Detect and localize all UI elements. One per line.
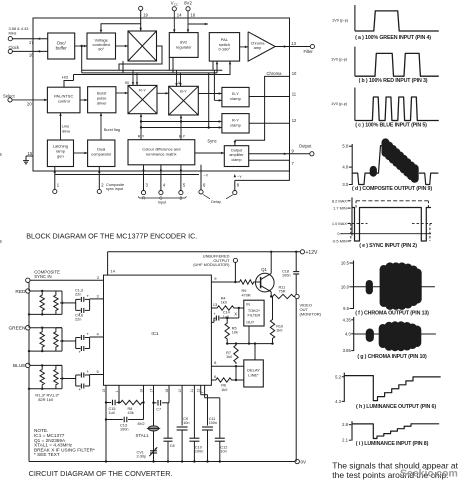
- terminal Output: [310, 152, 314, 156]
- resistor R BLUE: [41, 365, 43, 368]
- svg-text:+12V: +12V: [306, 250, 318, 256]
- svg-text:10: 10: [292, 71, 297, 76]
- terminal clock b pin 18: [8, 49, 12, 53]
- wire pin 16 stub 8V2: [143, 385, 145, 419]
- svg-text:8.2 MAX: 8.2 MAX: [332, 198, 347, 203]
- IC boundary MC1377P: [33, 18, 290, 171]
- svg-text:amplifier: amplifier: [229, 153, 244, 157]
- wire bus drops row1: [118, 64, 120, 70]
- wire clamp feed B: [141, 127, 222, 129]
- link X break point: [238, 308, 240, 318]
- wire 8V2 branch: [188, 23, 208, 25]
- terminal video out: [295, 294, 299, 298]
- capacitor C11 100n: [202, 426, 213, 428]
- resistor R6 1k0: [211, 379, 214, 381]
- svg-text:18: 18: [165, 389, 169, 393]
- svg-text:10.5: 10.5: [341, 261, 350, 266]
- wire wiper GREEN: [60, 340, 76, 342]
- terminal 0V: [295, 459, 299, 463]
- svg-text:14: 14: [111, 269, 116, 274]
- svg-text:15: 15: [102, 389, 106, 393]
- mixer M1 (subcarrier modulator): [128, 31, 157, 61]
- svg-text:MHz: MHz: [9, 30, 17, 35]
- wire Q1 collector: [270, 252, 272, 274]
- wire pin 13: [211, 307, 216, 309]
- wire BLUE rail: [28, 367, 30, 388]
- svg-text:C7: C7: [156, 407, 161, 411]
- svg-text:Burst flag: Burst flag: [104, 128, 120, 132]
- svg-text:3.65: 3.65: [343, 348, 352, 353]
- wire pin 12: [211, 321, 214, 323]
- svg-text:17: 17: [29, 40, 34, 45]
- block PAL switch 0-180deg: [209, 33, 239, 62]
- svg-text:driver: driver: [97, 100, 108, 105]
- potentiometer RV RED: [55, 291, 57, 294]
- svg-text:10: 10: [178, 389, 182, 393]
- svg-text:gen: gen: [57, 154, 64, 159]
- svg-text:43k: 43k: [128, 411, 134, 415]
- wire right rail: [295, 299, 297, 462]
- block PAL/NTSC control: [47, 87, 80, 113]
- svg-text:22n: 22n: [75, 293, 81, 297]
- wire BLUE top: [30, 364, 62, 366]
- resistor R10 1k0: [271, 296, 272, 298]
- svg-text:100n: 100n: [282, 274, 290, 278]
- svg-text:Filter: Filter: [304, 49, 314, 54]
- terminal pin 5 B input: [180, 165, 182, 191]
- wire sync to pin 2: [30, 279, 104, 281]
- wire GREEN rail: [28, 330, 30, 351]
- svg-text:( c ) 100% BLUE INPUT (PIN 5): ( c ) 100% BLUE INPUT (PIN 5): [355, 122, 427, 128]
- delay line DL1: [244, 360, 263, 387]
- svg-text:LINE*: LINE*: [248, 372, 259, 377]
- svg-text:drive: drive: [62, 129, 70, 133]
- svg-text:2-30p: 2-30p: [137, 455, 147, 459]
- wire pin 7 feedback to pin 8: [235, 160, 290, 180]
- capacitor C7: [154, 402, 157, 404]
- svg-text:75R: 75R: [279, 290, 286, 294]
- svg-text:TOKO*: TOKO*: [248, 309, 261, 313]
- capacitor C10 100n: [189, 437, 199, 439]
- wire sync to output amp: [195, 152, 225, 154]
- waveform d chroma blob: [382, 138, 390, 157]
- terminal pin 8 -Y in: [234, 180, 236, 190]
- wire GREEN top: [30, 327, 62, 329]
- svg-text:90: 90: [125, 81, 129, 85]
- svg-text:5.0: 5.0: [342, 144, 348, 149]
- svg-text:-0.5 MIN: -0.5 MIN: [332, 239, 347, 244]
- block B-Y clamp: [222, 87, 249, 106]
- svg-text:1V0 (p-p): 1V0 (p-p): [332, 18, 349, 23]
- svg-text:1k0: 1k0: [226, 355, 232, 359]
- amplifier Chroma amp: [248, 32, 275, 61]
- svg-text:luminance matrix: luminance matrix: [146, 151, 176, 156]
- wire output pin 9: [249, 153, 310, 155]
- wire PAL/NTSC to burst driver: [80, 99, 88, 101]
- wire pin 12 stub: [200, 385, 202, 394]
- svg-text:( a ) 100% GREEN INPUT (PIN 4): ( a ) 100% GREEN INPUT (PIN 4): [355, 35, 431, 41]
- wire pin 17 stub: [153, 385, 155, 461]
- svg-text:1V0 (p-p): 1V0 (p-p): [331, 57, 348, 62]
- wire R-Y mixer to B-Y mixer: [157, 92, 169, 94]
- svg-text:Output: Output: [299, 144, 312, 149]
- capacitor pair GREEN: [75, 338, 77, 349]
- capacitor C18 100n: [295, 252, 297, 271]
- wire RED bottom: [29, 313, 62, 315]
- svg-text:1V0 (p-p): 1V0 (p-p): [331, 101, 348, 106]
- svg-text:8V2: 8V2: [184, 1, 192, 6]
- capacitor C14 1u0: [215, 316, 217, 321]
- wire GREEN bottom: [29, 350, 62, 352]
- svg-text:4.3: 4.3: [335, 399, 341, 404]
- brace Input: [138, 197, 187, 199]
- resistor R5 10k: [226, 317, 228, 319]
- wire B-Y clamp to pin 11: [249, 96, 289, 98]
- wire filter out down: [248, 326, 250, 344]
- wire ramp bus: [55, 174, 199, 176]
- svg-text:buffer: buffer: [56, 46, 68, 51]
- wire pin 9 node: [211, 281, 238, 283]
- resistor R11 75R: [271, 294, 295, 298]
- terminal pin 4 G input: [160, 165, 162, 191]
- svg-text:16: 16: [139, 389, 143, 393]
- svg-text:IC1: IC1: [151, 331, 159, 336]
- wire chroma amp to filter pin 13: [275, 46, 310, 48]
- capacitor C8: [168, 402, 169, 404]
- capacitor C9 10n: [177, 426, 188, 428]
- wire bus to delay top: [254, 344, 256, 360]
- svg-text:12: 12: [292, 118, 297, 123]
- svg-text:0-180°: 0-180°: [218, 47, 230, 52]
- svg-text:control: control: [58, 99, 70, 104]
- potentiometer RV GREEN: [55, 328, 57, 331]
- svg-text:clamp: clamp: [230, 122, 241, 127]
- wire 90 into R-Y mixer: [132, 70, 134, 85]
- svg-text:* SEE TEXT: * SEE TEXT: [34, 452, 60, 457]
- wire Q1 emitter: [270, 292, 272, 297]
- svg-text:1k0: 1k0: [221, 301, 227, 305]
- svg-text:9.5: 9.5: [343, 306, 349, 311]
- terminal pin 3 R input: [143, 165, 145, 191]
- crystal XTAL1 4.43MHz: [148, 426, 158, 431]
- svg-text:5.2: 5.2: [335, 374, 341, 379]
- bus subcarrier phase 90: [82, 69, 223, 71]
- mixer R-Y modulator: [128, 85, 157, 113]
- svg-text:(MONITOR): (MONITOR): [300, 311, 322, 316]
- svg-text:0: 0: [178, 81, 180, 85]
- wire matrix R-Y up to modulator: [140, 114, 142, 140]
- svg-text:R-Y: R-Y: [138, 134, 145, 138]
- wire pin 15 stub: [105, 385, 107, 461]
- wire 0 into B-Y mixer: [176, 70, 178, 86]
- mixer B-Y modulator: [169, 86, 199, 115]
- svg-text:2.8: 2.8: [342, 422, 348, 427]
- svg-text:470R: 470R: [242, 294, 251, 298]
- svg-text:10k: 10k: [232, 331, 238, 335]
- svg-text:RED: RED: [15, 289, 26, 295]
- capacitor C12 10n: [215, 437, 225, 439]
- svg-text:( h ) LUMINANCE OUTPUT (PIN 6): ( h ) LUMINANCE OUTPUT (PIN 6): [356, 404, 436, 410]
- resistor R RED: [41, 291, 43, 294]
- svg-text:FILTER: FILTER: [247, 314, 260, 318]
- svg-text:amp: amp: [254, 45, 262, 50]
- svg-text:100n: 100n: [120, 428, 128, 432]
- wire line drive: [60, 113, 62, 140]
- wire wiper BLUE: [60, 378, 76, 380]
- svg-text:3.0: 3.0: [342, 182, 348, 187]
- block Voltage controlled 90deg: [87, 33, 116, 59]
- svg-text:B-Y: B-Y: [179, 134, 186, 138]
- wire left rail: [28, 283, 30, 292]
- scan artifacts left edge: [0, 153, 2, 156]
- svg-text:11: 11: [292, 91, 297, 96]
- bus subcarrier phase 0: [82, 72, 217, 74]
- svg-text:1: 1: [115, 391, 119, 393]
- wire burst drive tap: [81, 45, 83, 47]
- svg-text:1k0: 1k0: [276, 329, 282, 333]
- wire +12V rail: [107, 252, 109, 275]
- block Burst pulse driver: [88, 87, 116, 113]
- wire GREEN to pin 4: [90, 336, 104, 338]
- wire clamp feed A: [141, 121, 222, 123]
- svg-text:Sync: Sync: [207, 139, 216, 144]
- svg-text:16: 16: [191, 13, 196, 18]
- ground rail 0V: [29, 461, 295, 463]
- svg-text:1u0: 1u0: [109, 411, 115, 415]
- terminal unbuffered output: [233, 258, 237, 262]
- svg-text:−Y: −Y: [204, 173, 209, 177]
- svg-text:( e ) SYNC INPUT (PIN 2): ( e ) SYNC INPUT (PIN 2): [359, 243, 417, 249]
- svg-text:7: 7: [200, 391, 204, 393]
- wire pin 11 stub: [193, 385, 195, 438]
- svg-text:OUT: OUT: [246, 320, 255, 324]
- svg-text:20: 20: [27, 102, 32, 107]
- wire B-Y mixer to B-Y clamp: [198, 93, 222, 95]
- block Osc/buffer: [48, 33, 75, 59]
- wire burst driver to R-Y mixer: [116, 92, 128, 94]
- wire RED to pin 3: [90, 298, 104, 300]
- svg-text:C8: C8: [170, 444, 175, 448]
- wire RED rail: [28, 293, 30, 314]
- block Latching ramp gen: [47, 140, 73, 167]
- wire pin 1 stub: [118, 385, 120, 402]
- wire bias bus: [227, 343, 272, 345]
- svg-text:( f ) CHROMA OUTPUT (PIN 13): ( f ) CHROMA OUTPUT (PIN 13): [355, 311, 429, 317]
- wire 90deg to mixer M1: [116, 45, 129, 47]
- label Delay external: [203, 195, 210, 199]
- wire pin 7 stub: [204, 385, 206, 390]
- resistor R4 1k0: [216, 306, 235, 310]
- capacitor pair BLUE: [75, 375, 77, 386]
- svg-text:Input: Input: [158, 201, 167, 205]
- capacitor C13 100n: [106, 419, 123, 421]
- svg-text:X: X: [234, 311, 237, 316]
- svg-text:Line: Line: [62, 125, 69, 129]
- terminal pin 1 ramp: [54, 167, 56, 190]
- filter FL1 TOKO: [244, 300, 264, 326]
- svg-text:Q1: Q1: [261, 267, 267, 272]
- terminal Select pin 20: [8, 98, 12, 102]
- svg-text:100n: 100n: [209, 421, 217, 425]
- svg-text:Seekic.com: Seekic.com: [400, 467, 458, 479]
- terminal +12V: [300, 250, 304, 254]
- capacitor CV1 2-30p trimmer: [150, 450, 157, 452]
- svg-text:82R 1k0: 82R 1k0: [38, 397, 54, 402]
- terminal pin 19: [139, 6, 143, 10]
- resistor R9 470R: [239, 280, 255, 284]
- svg-text:8V2: 8V2: [138, 421, 146, 426]
- potentiometer RV BLUE: [55, 365, 57, 368]
- terminal pin 15 ground: [26, 155, 33, 157]
- wire pin 18 stub: [168, 385, 170, 403]
- svg-text:11: 11: [190, 389, 194, 393]
- svg-text:Composite: Composite: [106, 183, 124, 187]
- wire R4 to filter in: [235, 307, 244, 309]
- svg-text:BLOCK DIAGRAM OF THE MC1377P E: BLOCK DIAGRAM OF THE MC1377P ENCODER IC.: [26, 232, 197, 241]
- svg-text:SYNC IN: SYNC IN: [34, 274, 51, 279]
- svg-text:sync input: sync input: [106, 187, 124, 191]
- block Dual comparator: [88, 140, 115, 167]
- svg-text:15: 15: [28, 151, 33, 156]
- svg-text:22n: 22n: [75, 318, 81, 322]
- wire pll feedback to 90deg block: [101, 24, 141, 31]
- svg-text:90°: 90°: [98, 47, 104, 52]
- block Colour difference and luminance matrix: [128, 140, 195, 165]
- block Output amplifier clamp: [224, 146, 248, 167]
- terminal composite sync in: [26, 278, 30, 282]
- svg-text:( g ) CHROMA INPUT (PIN 10): ( g ) CHROMA INPUT (PIN 10): [357, 354, 427, 360]
- svg-text:Output: Output: [231, 148, 243, 152]
- svg-text:100n: 100n: [195, 450, 203, 454]
- svg-text:(UHF MODULATOR): (UHF MODULATOR): [193, 262, 230, 267]
- svg-text:1.0 MAX: 1.0 MAX: [332, 221, 347, 226]
- svg-text:( d ) COMPOSITE OUTPUT (PIN 9): ( d ) COMPOSITE OUTPUT (PIN 9): [352, 186, 432, 192]
- svg-text:Chroma: Chroma: [267, 71, 283, 76]
- svg-text:4.0: 4.0: [342, 165, 348, 170]
- wire R7 junction: [235, 366, 237, 380]
- resistor R GREEN: [41, 328, 43, 331]
- IC U1 MC1377 (IC1): [104, 275, 212, 385]
- svg-text:IN: IN: [246, 303, 250, 307]
- svg-text:R-Y: R-Y: [139, 88, 146, 93]
- svg-text:clamp: clamp: [231, 158, 241, 162]
- svg-text:Delay: Delay: [211, 200, 221, 204]
- svg-text:−Y: −Y: [237, 175, 242, 179]
- svg-text:XTAL1: XTAL1: [136, 433, 150, 438]
- wire wiper RED: [60, 302, 76, 304]
- terminal pin 6 -Y out: [200, 165, 202, 190]
- wire BLUE to pin 5: [90, 374, 104, 376]
- svg-text:1.7 MIN: 1.7 MIN: [333, 206, 347, 211]
- wire matrix B-Y up to modulator: [180, 115, 182, 140]
- svg-text:10n: 10n: [220, 450, 226, 454]
- terminal Filter pin 13: [310, 44, 314, 48]
- svg-text:comparator: comparator: [91, 152, 112, 157]
- wire PAL switch to chroma amp: [240, 46, 249, 48]
- svg-text:regulator: regulator: [176, 45, 192, 50]
- wire R-Y clamp to pin 12: [249, 122, 289, 124]
- svg-text:GREEN: GREEN: [8, 325, 26, 331]
- svg-text:10.0: 10.0: [341, 284, 350, 289]
- svg-text:( i ) LUMINANCE INPUT (PIN 8): ( i ) LUMINANCE INPUT (PIN 8): [356, 441, 429, 447]
- wire pin 10 stub: [181, 385, 183, 425]
- svg-text:13: 13: [291, 41, 296, 46]
- block 8V2 regulator: [169, 33, 198, 58]
- wire bus drop to B-Y clamp input: [213, 70, 215, 100]
- svg-text:14: 14: [177, 13, 182, 18]
- wire RED top: [30, 290, 62, 292]
- svg-text:CIRCUIT DIAGRAM OF THE CONVERT: CIRCUIT DIAGRAM OF THE CONVERTER.: [29, 469, 173, 478]
- block R-Y clamp: [222, 114, 249, 133]
- terminal clock a pin 17: [8, 37, 12, 41]
- resistor R7 1k0: [234, 344, 238, 364]
- svg-text:CC: CC: [174, 2, 178, 6]
- svg-text:B-Y: B-Y: [180, 89, 187, 94]
- wire pin 8 to delay: [211, 365, 243, 367]
- terminal pin 2 composite sync input: [98, 167, 100, 190]
- capacitor C15 1u0: [106, 402, 111, 404]
- svg-text:1k0: 1k0: [221, 388, 227, 392]
- svg-text:4.35: 4.35: [343, 317, 352, 322]
- svg-text:17: 17: [149, 389, 153, 393]
- svg-text:2.1: 2.1: [342, 438, 348, 443]
- wire M1 output to subcarrier bus: [119, 46, 162, 70]
- svg-text:19: 19: [143, 13, 148, 18]
- svg-text:H/2: H/2: [62, 74, 69, 79]
- svg-text:( b ) 100% RED INPUT (PIN 3): ( b ) 100% RED INPUT (PIN 3): [359, 78, 428, 84]
- wire osc to 90deg: [75, 45, 87, 47]
- svg-text:clamp: clamp: [230, 96, 241, 101]
- wire chroma feedback pin 10: [235, 76, 290, 140]
- wire ramp gen to comparator: [74, 152, 88, 154]
- wire BLUE bottom: [29, 388, 62, 390]
- svg-text:18: 18: [29, 53, 34, 58]
- wire PAL switch feeds: [216, 61, 218, 73]
- svg-text:4.0: 4.0: [345, 331, 351, 336]
- svg-text:0V: 0V: [301, 460, 308, 465]
- resistor R8 43k: [119, 400, 144, 404]
- svg-text:10n: 10n: [183, 421, 189, 425]
- wire bus drop to R-Y clamp input: [208, 73, 210, 128]
- svg-text:BLUE: BLUE: [13, 363, 26, 369]
- svg-text:13: 13: [213, 302, 218, 307]
- wire burst flag: [100, 113, 102, 140]
